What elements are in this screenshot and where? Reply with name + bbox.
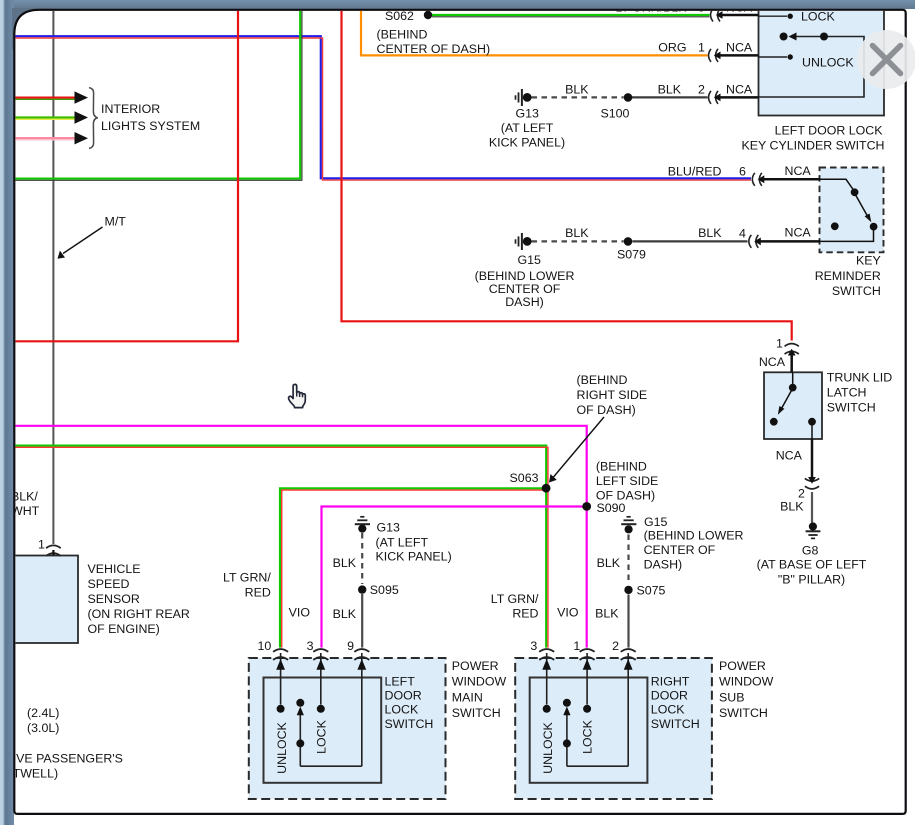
svg-text:9: 9	[347, 639, 354, 653]
svg-text:SUB: SUB	[719, 690, 744, 704]
svg-text:5: 5	[698, 1, 705, 15]
svg-text:2: 2	[798, 486, 805, 500]
svg-text:BLK: BLK	[780, 499, 804, 513]
svg-text:G8: G8	[802, 544, 819, 558]
svg-text:DOOR: DOOR	[385, 689, 422, 703]
svg-text:WINDOW: WINDOW	[719, 675, 774, 689]
svg-text:VIO: VIO	[289, 606, 311, 620]
svg-text:NCA: NCA	[759, 355, 786, 369]
svg-text:1: 1	[776, 337, 783, 351]
svg-text:UNLOCK: UNLOCK	[802, 56, 854, 70]
svg-text:DASH): DASH)	[644, 558, 683, 572]
svg-text:RED: RED	[512, 606, 538, 620]
svg-text:(BEHIND LOWER: (BEHIND LOWER	[644, 529, 744, 543]
svg-text:M/T: M/T	[105, 215, 127, 229]
svg-text:RED: RED	[245, 586, 271, 600]
svg-text:G15: G15	[644, 515, 668, 529]
svg-text:SWITCH: SWITCH	[452, 706, 501, 720]
svg-text:WINDOW: WINDOW	[452, 675, 507, 689]
svg-text:S090: S090	[597, 501, 626, 515]
svg-text:SWITCH: SWITCH	[832, 284, 881, 298]
svg-text:FOOTWELL): FOOTWELL)	[0, 767, 58, 781]
svg-text:LEFT DOOR LOCK: LEFT DOOR LOCK	[775, 124, 884, 138]
svg-text:CENTER OF: CENTER OF	[489, 282, 561, 296]
svg-text:BLK: BLK	[658, 83, 682, 97]
svg-text:(AT BASE OF LEFT: (AT BASE OF LEFT	[757, 557, 867, 571]
svg-text:SWITCH: SWITCH	[385, 717, 434, 731]
svg-text:LT GRN/: LT GRN/	[223, 571, 271, 585]
svg-text:S075: S075	[637, 584, 666, 598]
svg-text:BLK: BLK	[565, 226, 589, 240]
svg-text:RIGHT: RIGHT	[651, 675, 690, 689]
svg-text:SPEED: SPEED	[88, 577, 130, 591]
svg-text:OF DASH): OF DASH)	[577, 403, 636, 417]
svg-text:CENTER OF DASH): CENTER OF DASH)	[377, 42, 491, 56]
svg-text:KICK PANEL): KICK PANEL)	[376, 549, 452, 563]
svg-text:1: 1	[573, 639, 580, 653]
svg-text:MAIN: MAIN	[452, 690, 483, 704]
svg-text:S079: S079	[617, 247, 646, 261]
svg-text:LOCK: LOCK	[651, 703, 685, 717]
svg-text:LIGHTS SYSTEM: LIGHTS SYSTEM	[101, 119, 200, 133]
svg-text:(ABOVE PASSENGER'S: (ABOVE PASSENGER'S	[0, 752, 123, 766]
svg-text:2: 2	[612, 639, 619, 653]
svg-text:KICK PANEL): KICK PANEL)	[489, 136, 565, 150]
svg-text:NCA: NCA	[785, 164, 812, 178]
svg-text:UNLOCK: UNLOCK	[541, 721, 555, 773]
svg-text:SWITCH: SWITCH	[651, 717, 700, 731]
svg-text:SENSOR: SENSOR	[88, 592, 140, 606]
svg-text:LOCK: LOCK	[385, 703, 419, 717]
svg-text:BLK: BLK	[698, 226, 722, 240]
svg-text:4: 4	[739, 227, 746, 241]
svg-text:ORG: ORG	[658, 41, 686, 55]
svg-text:BLU/RED: BLU/RED	[668, 165, 722, 179]
svg-text:BLK: BLK	[333, 607, 357, 621]
svg-text:REMINDER: REMINDER	[815, 269, 881, 283]
svg-text:G13: G13	[377, 521, 401, 535]
svg-text:DOOR: DOOR	[651, 689, 688, 703]
svg-text:BLK: BLK	[597, 556, 621, 570]
svg-text:S062: S062	[385, 9, 414, 23]
svg-text:POWER: POWER	[452, 659, 499, 673]
svg-text:(2.4L): (2.4L)	[27, 706, 59, 720]
svg-text:NCA: NCA	[726, 41, 753, 55]
svg-text:LOCK: LOCK	[801, 10, 835, 24]
svg-text:TRUNK LID: TRUNK LID	[827, 370, 892, 384]
svg-text:NCA: NCA	[785, 226, 812, 240]
svg-text:POWER: POWER	[719, 659, 766, 673]
svg-text:LT GRN/: LT GRN/	[491, 592, 539, 606]
svg-text:(BEHIND: (BEHIND	[596, 460, 647, 474]
svg-text:UNLOCK: UNLOCK	[275, 721, 289, 773]
svg-text:LATCH: LATCH	[827, 385, 867, 399]
svg-text:RIGHT SIDE: RIGHT SIDE	[577, 388, 648, 402]
svg-text:G13: G13	[516, 107, 540, 121]
svg-text:LEFT: LEFT	[385, 675, 416, 689]
svg-text:G15: G15	[518, 253, 542, 267]
svg-text:BLK: BLK	[595, 607, 619, 621]
svg-text:BLK: BLK	[333, 556, 357, 570]
svg-text:1: 1	[38, 538, 45, 552]
svg-text:LOCK: LOCK	[581, 719, 595, 753]
svg-text:BLK: BLK	[565, 83, 589, 97]
svg-text:S063: S063	[510, 471, 539, 485]
svg-text:(3.0L): (3.0L)	[27, 721, 59, 735]
svg-text:LEFT SIDE: LEFT SIDE	[596, 474, 658, 488]
svg-text:6: 6	[739, 165, 746, 179]
svg-text:LOCK: LOCK	[315, 719, 329, 753]
svg-text:NCA: NCA	[726, 1, 753, 15]
svg-text:2: 2	[698, 83, 705, 97]
svg-text:(BEHIND LOWER: (BEHIND LOWER	[475, 269, 575, 283]
svg-text:(ON RIGHT REAR: (ON RIGHT REAR	[88, 607, 190, 621]
svg-text:1: 1	[698, 41, 705, 55]
svg-text:(AT LEFT: (AT LEFT	[501, 121, 554, 135]
svg-text:DASH): DASH)	[505, 295, 544, 309]
svg-text:3: 3	[307, 639, 314, 653]
svg-text:CENTER OF: CENTER OF	[644, 543, 716, 557]
svg-text:10: 10	[258, 639, 272, 653]
svg-text:S100: S100	[601, 107, 630, 121]
svg-text:LT GRN/BLK: LT GRN/BLK	[615, 1, 687, 15]
svg-text:3: 3	[530, 639, 537, 653]
svg-text:(BEHIND: (BEHIND	[377, 28, 428, 42]
svg-text:(BEHIND: (BEHIND	[577, 373, 628, 387]
svg-text:SWITCH: SWITCH	[827, 400, 876, 414]
svg-text:VEHICLE: VEHICLE	[88, 562, 141, 576]
svg-text:KEY: KEY	[856, 254, 881, 268]
svg-text:OF ENGINE): OF ENGINE)	[88, 622, 160, 636]
svg-text:(AT LEFT: (AT LEFT	[376, 535, 429, 549]
svg-text:NCA: NCA	[726, 83, 753, 97]
svg-text:SWITCH: SWITCH	[719, 706, 768, 720]
svg-text:KEY CYLINDER SWITCH: KEY CYLINDER SWITCH	[742, 139, 885, 153]
svg-text:INTERIOR: INTERIOR	[101, 102, 160, 116]
svg-text:NCA: NCA	[776, 449, 803, 463]
svg-text:"B" PILLAR): "B" PILLAR)	[778, 572, 845, 586]
svg-text:VIO: VIO	[557, 606, 579, 620]
svg-text:S095: S095	[370, 583, 399, 597]
